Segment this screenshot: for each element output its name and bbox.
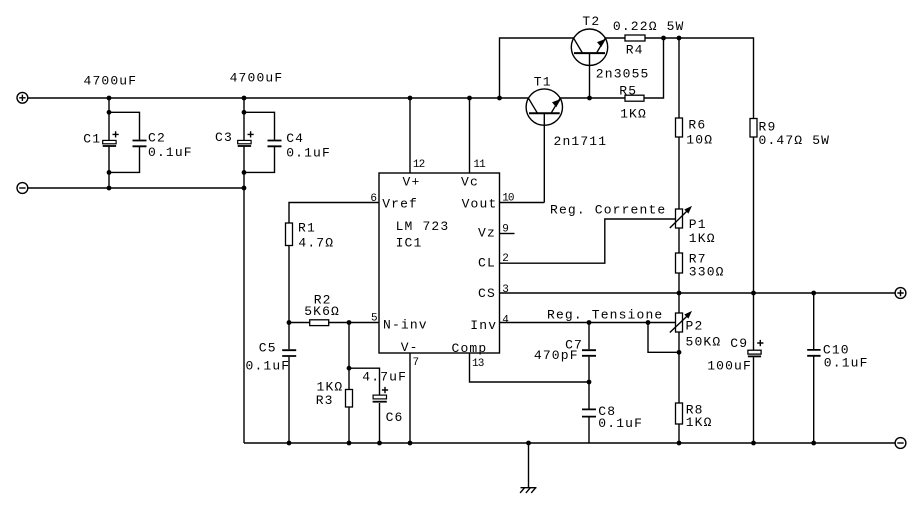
wire: node to C5 — [288, 323, 290, 444]
junction C5 bottom rail — [287, 441, 292, 446]
wire: T2 collector branch — [500, 38, 574, 98]
resistor R6 (10 ohm) — [676, 118, 683, 137]
wire: Vc pin11 riser — [469, 98, 471, 173]
junction V+ riser — [408, 96, 413, 101]
capacitor C5 (0.1uF) — [282, 350, 296, 356]
ground — [520, 443, 536, 493]
svg-text:5K6Ω: 5K6Ω — [304, 304, 340, 319]
svg-text:C9: C9 — [730, 336, 748, 351]
wire: Inv pin4 line — [500, 322, 676, 324]
svg-text:C6: C6 — [386, 410, 404, 425]
svg-text:Reg. Tensione: Reg. Tensione — [547, 307, 663, 322]
svg-text:R5: R5 — [619, 84, 637, 99]
junction C1 top rail — [107, 96, 112, 101]
wire: R6 top drop — [678, 38, 680, 118]
svg-text:V+: V+ — [403, 175, 421, 190]
junction Vc riser — [467, 96, 472, 101]
svg-text:R4: R4 — [626, 43, 644, 58]
wire: V+ pin12 riser — [409, 98, 411, 173]
svg-text:V-: V- — [401, 340, 419, 355]
svg-text:P1: P1 — [689, 217, 707, 232]
svg-text:50KΩ: 50KΩ — [686, 334, 722, 349]
transistor T2 (2n3055) — [571, 29, 607, 98]
junction pin7 rail — [408, 441, 413, 446]
potentiometer P1 (1K) — [670, 206, 692, 228]
wire: CS pin3 / +output line — [500, 292, 896, 294]
svg-text:2n3055: 2n3055 — [596, 66, 650, 81]
junction C9 bottom rail — [751, 441, 756, 446]
svg-text:13: 13 — [472, 358, 484, 370]
wire: R6/P1/R7 chain column — [678, 137, 680, 443]
junction C3 top rail — [242, 96, 247, 101]
wire: minus input rail — [28, 188, 244, 443]
svg-text:2: 2 — [502, 253, 508, 265]
svg-text:Inv: Inv — [470, 318, 497, 333]
svg-text:4700uF: 4700uF — [84, 74, 138, 89]
svg-text:C4: C4 — [286, 131, 304, 146]
wire: R4 to R9 top corner — [645, 38, 754, 119]
output terminal + — [895, 288, 906, 299]
svg-text:1KΩ: 1KΩ — [686, 415, 713, 430]
svg-text:9: 9 — [502, 223, 508, 235]
svg-text:Vz: Vz — [478, 226, 496, 241]
junction P2 wiper — [646, 320, 651, 325]
svg-text:0.22Ω 5W: 0.22Ω 5W — [613, 19, 685, 34]
svg-text:0.47Ω 5W: 0.47Ω 5W — [759, 133, 831, 148]
wire: Vz pin9 stub — [500, 233, 515, 235]
wire: R9 column — [753, 137, 755, 293]
svg-text:Vout: Vout — [462, 196, 498, 211]
junction R3 bottom rail — [347, 441, 352, 446]
wire: Comp pin13 to C7/C8 node — [470, 353, 590, 382]
svg-text:C2: C2 — [148, 130, 166, 145]
potentiometer P2 (50K) — [670, 311, 692, 333]
junction R2/R3 node — [347, 320, 352, 325]
junction R3/C6 branch — [347, 366, 352, 371]
input terminal + — [17, 92, 28, 103]
svg-text:T1: T1 — [534, 75, 552, 90]
junction T1 emitter / T2 base — [587, 96, 592, 101]
svg-text:6: 6 — [370, 193, 376, 205]
svg-text:330Ω: 330Ω — [689, 264, 725, 279]
svg-text:Vc: Vc — [461, 175, 479, 190]
svg-text:100uF: 100uF — [707, 359, 752, 374]
resistor R1 (4.7 ohm) — [286, 223, 293, 246]
junction C7 top — [587, 320, 592, 325]
junction C1 bottom — [107, 186, 112, 191]
wire: R5 right to R4 node riser — [644, 38, 664, 98]
svg-text:N-inv: N-inv — [383, 317, 428, 332]
svg-text:10: 10 — [502, 192, 514, 204]
IC U1 LM723 body — [379, 173, 500, 353]
svg-text:C3: C3 — [215, 130, 233, 145]
wire: R1 bottom to node — [288, 246, 290, 323]
svg-text:3: 3 — [502, 284, 508, 296]
svg-text:11: 11 — [473, 159, 486, 171]
wire: P2 wiper tie — [648, 323, 679, 353]
svg-text:4700uF: 4700uF — [230, 70, 284, 85]
junction ground rail — [526, 441, 531, 446]
svg-text:Vref: Vref — [382, 196, 418, 211]
capacitor C10 (0.1uF) — [807, 293, 820, 443]
junction R9/C9 on CS line — [751, 291, 756, 296]
svg-text:R3: R3 — [316, 393, 334, 408]
wire: CL pin2 to P1 wiper — [500, 219, 676, 263]
resistor R9 (0.47 ohm 5W) — [750, 119, 757, 138]
capacitor C3 (4700uF electrolytic) — [238, 98, 254, 188]
junction P2 bottom tie — [677, 350, 682, 355]
svg-text:7: 7 — [413, 357, 419, 369]
output terminal - — [895, 438, 906, 449]
junction R8 bottom rail — [677, 441, 682, 446]
wire: bottom ground rail — [244, 442, 895, 444]
junction Comp/C7/C8 — [587, 380, 592, 385]
junction C10 bottom rail — [811, 441, 816, 446]
resistor R3 (1K) — [346, 368, 353, 443]
svg-text:5: 5 — [371, 313, 377, 325]
junction C3 bottom — [242, 186, 247, 191]
resistor R5 (1K) — [625, 95, 644, 101]
svg-text:1KΩ: 1KΩ — [689, 231, 716, 246]
svg-text:4.7uF: 4.7uF — [362, 370, 407, 385]
capacitor C8 (0.1uF) — [582, 382, 596, 443]
capacitor C1 (4700uF electrolytic) — [103, 98, 119, 188]
svg-text:0.1uF: 0.1uF — [824, 356, 869, 371]
svg-text:0.1uF: 0.1uF — [598, 416, 643, 431]
svg-text:C1: C1 — [83, 132, 101, 147]
junction C6 bottom rail — [377, 441, 382, 446]
junction R6 top — [677, 36, 682, 41]
transistor T1 (2n1711) — [526, 89, 562, 203]
wire: R3/C6 branch node — [349, 323, 380, 395]
svg-text:470pF: 470pF — [534, 348, 579, 363]
svg-text:4.7Ω: 4.7Ω — [298, 235, 334, 250]
svg-text:1KΩ: 1KΩ — [620, 106, 647, 121]
junction R1/R2 node — [287, 320, 292, 325]
svg-text:0.1uF: 0.1uF — [148, 145, 193, 160]
input terminal - — [17, 183, 28, 194]
resistor R7 (330 ohm) — [676, 253, 683, 273]
capacitor C6 (4.7uF electrolytic) — [373, 387, 389, 443]
wire: T1 emitter to R5 — [560, 97, 625, 99]
svg-text:P2: P2 — [686, 319, 704, 334]
svg-text:IC1: IC1 — [396, 236, 423, 251]
junction C2 top branch — [107, 110, 112, 115]
svg-text:2n1711: 2n1711 — [554, 134, 608, 149]
resistor R8 (1K) — [676, 403, 683, 424]
capacitor C2 (0.1uF) — [109, 112, 147, 172]
wire: T2 emitter to R4 — [605, 37, 625, 39]
capacitor C4 (0.1uF) — [244, 112, 282, 172]
capacitor C9 (100uF electrolytic) — [748, 293, 764, 443]
svg-text:0.1uF: 0.1uF — [246, 358, 291, 373]
svg-text:CL: CL — [478, 256, 496, 271]
resistor R2 (5K6) — [289, 320, 379, 326]
svg-text:0.1uF: 0.1uF — [286, 145, 331, 160]
wire: top +V rail — [28, 97, 529, 99]
junction C10 top — [811, 291, 816, 296]
junction C4 top branch — [242, 110, 247, 115]
svg-text:C5: C5 — [259, 341, 277, 356]
svg-text:R6: R6 — [688, 118, 706, 133]
resistor R4 (0.22 ohm 5W) — [625, 35, 645, 41]
svg-text:Reg. Corrente: Reg. Corrente — [550, 203, 666, 218]
svg-text:10Ω: 10Ω — [686, 133, 713, 148]
junction R4/R5 node — [661, 36, 666, 41]
svg-text:LM 723: LM 723 — [396, 219, 450, 234]
svg-text:R1: R1 — [298, 220, 316, 235]
wire: Vout pin10 to T1 base — [500, 202, 545, 204]
wire: V- pin7 drop — [409, 353, 411, 443]
svg-text:T2: T2 — [582, 14, 600, 29]
svg-text:CS: CS — [478, 286, 496, 301]
junction C4 bottom branch — [242, 170, 247, 175]
svg-text:Comp: Comp — [452, 341, 488, 356]
svg-text:12: 12 — [413, 159, 425, 171]
wire: Vref pin6 to R1 — [289, 203, 379, 224]
capacitor C7 (470pF) — [582, 323, 596, 383]
junction R7/P2 on CS line — [677, 291, 682, 296]
junction T2 collector branch — [497, 96, 502, 101]
junction C2 bottom branch — [107, 170, 112, 175]
